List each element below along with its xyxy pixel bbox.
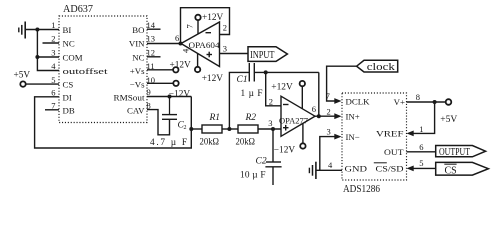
node junction at pin 3 COM [35,55,39,59]
svg-text:OUTPUT: OUTPUT [439,147,470,158]
ADS1286 right pin names [376,97,406,173]
wire C1 to OPA277 feedback node [254,71,318,73]
svg-text:IN−: IN− [346,132,360,142]
svg-text:ADS1286: ADS1286 [343,184,380,195]
op-amp U3 plus input marker [283,125,289,131]
svg-text:+12V: +12V [271,82,293,92]
svg-text:2: 2 [184,125,187,131]
IC U4 ADS1286 dotted body [342,93,407,180]
svg-text:BO: BO [132,25,144,35]
svg-text:1: 1 [51,20,55,30]
wire pin 7 DB stub [45,109,59,111]
arrow into IN- [334,134,341,140]
OUTPUT signal flag [436,146,486,157]
svg-text:R2: R2 [245,113,257,123]
svg-text:10 µ F: 10 µ F [240,171,266,181]
svg-text:−12V: −12V [169,90,191,100]
svg-text:AD637: AD637 [63,4,93,15]
svg-text:C1: C1 [237,75,248,85]
svg-text:INPUT: INPUT [250,50,275,61]
power +12V terminal at OPA604 pin 7 [197,20,199,34]
op-amp U2 minus input marker [206,32,212,34]
svg-text:DCLK: DCLK [346,97,371,107]
svg-text:4: 4 [328,160,333,170]
svg-text:7: 7 [185,24,195,28]
svg-text:+12V: +12V [202,13,224,23]
svg-text:R1: R1 [209,113,221,123]
ADS1286 left pin names [345,97,371,174]
wire OUT pin 6 to OUTPUT flag [407,151,436,153]
svg-text:14: 14 [147,20,156,30]
svg-text:RMSout: RMSout [114,92,146,102]
svg-text:3: 3 [51,48,55,58]
wire clock flag to DCLK pin 7 [327,66,357,101]
power +12V terminal at OPA604 pin 4 [197,53,199,66]
resistor R2 (20k) [238,125,258,133]
wire R2 to OPA277 non-inverting input [258,128,281,130]
svg-text:VREF: VREF [376,129,404,139]
svg-text:6: 6 [419,142,423,152]
svg-text:outoffset: outoffset [63,66,109,76]
node C1 / pin2 junction [264,70,268,74]
power +5V terminal at ADS1286 pin 8 V+ [407,101,446,103]
wire feedback leg down to output [318,72,320,116]
svg-text:8: 8 [147,100,151,110]
CS signal flag [436,162,489,175]
wire OPA604 pin 3 to INPUT flag [220,53,249,55]
svg-text:VIN: VIN [129,39,145,49]
op-amp U2 plus input marker [207,52,213,58]
capacitor C2 (10uF) at OPA277 input [272,129,274,162]
svg-text:+Vs: +Vs [130,66,145,76]
node OPA604 output at AD637 VIN [179,42,183,46]
svg-text:NC: NC [63,39,75,49]
svg-text:clock: clock [367,62,396,73]
svg-text:3: 3 [327,127,331,137]
wire ground to GND pin 4 [316,169,342,171]
svg-text:2: 2 [223,23,227,33]
svg-text:+5V: +5V [440,115,457,125]
svg-text:OUT: OUT [384,147,404,157]
capacitor C2 (4.7uF) [162,97,177,120]
wire IN- pin 3 to ground rail [320,137,335,171]
svg-text:C2: C2 [256,157,267,167]
svg-text:−Vs: −Vs [130,80,145,90]
wire ground bus down to pins 3 and 4 [37,30,59,71]
wire pin 9 RMSout to R1 node [147,96,191,98]
arrow into DCLK [334,98,341,104]
svg-text:NC: NC [132,53,144,63]
ground (at ADS1286 GND pin 4) [309,162,316,179]
overline on CS flag text [444,163,456,165]
power -12V terminal at OPA277 pin 4 [302,123,304,143]
wire OPA604 feedback loop output to pin 2 [181,8,230,44]
svg-text:1 µ F: 1 µ F [241,89,263,99]
wire +5V terminal to pin 5 CS [26,83,59,85]
power +5V terminal at AD637 pin 5 CS [20,81,25,86]
arrow into VREF [407,131,414,137]
svg-text:5: 5 [51,75,55,85]
power +12V terminal at OPA277 pin 7 [301,86,303,108]
svg-text:+12V: +12V [170,60,192,70]
wire RMSout node to R1 [191,128,202,130]
wire AD637 pin 13 VIN to OPA604 output [147,43,181,45]
svg-text:+12V: +12V [202,74,224,84]
node R1-R2 / C1 junction [227,127,231,131]
svg-text:−12V: −12V [274,145,296,155]
INPUT signal flag [248,47,287,62]
resistor R1 (20k) [202,125,222,133]
op-amp U2 OPA604 triangle [181,22,220,67]
op-amp U3 OPA277 triangle [281,96,315,136]
svg-text:5: 5 [419,158,423,168]
svg-text:20kΩ: 20kΩ [236,138,256,148]
wire pin 8 CAV loop to capacitor C2 [147,110,170,135]
wire pin 2 NC stub [43,42,60,44]
svg-text:CS: CS [445,164,457,176]
AD637 left pin numbers 1-7 [51,20,56,111]
wire down to OPA277 inverting input pin 2 [266,72,281,105]
svg-text:13: 13 [147,34,156,44]
svg-text:6: 6 [175,33,179,43]
svg-text:8: 8 [416,92,420,102]
svg-text:20kΩ: 20kΩ [200,138,220,148]
node V+ / VREF junction [433,100,437,104]
wire junction to pin 3 COM [37,56,59,58]
svg-text:7: 7 [51,101,55,111]
arrow into CS/SD [407,166,414,172]
svg-text:3: 3 [223,44,227,54]
svg-text:CAV: CAV [127,105,145,115]
svg-text:4.7 µ F: 4.7 µ F [150,138,187,148]
svg-text:3: 3 [268,118,272,128]
wire ground to AD637 pin 1 BI [25,29,59,31]
svg-text:CS: CS [63,80,74,90]
svg-text:2: 2 [51,34,55,44]
svg-text:6: 6 [312,104,316,114]
clock signal flag [357,60,398,72]
ADS1286 pin numbers [326,91,424,170]
svg-text:IN+: IN+ [346,112,360,122]
wire OPA277 output to ADS1286 IN+ [315,115,335,117]
node ground junction at pin 1 [35,28,39,32]
AD637 right pin numbers 14-8 [147,20,156,110]
wire R1 to R2 [222,128,238,130]
wire pin 6 DI loop down to bottom rail [35,97,192,149]
op-amp U3 minus input marker [283,104,289,106]
svg-text:2: 2 [327,107,331,117]
ground (top-left chassis ground) [19,22,25,39]
node C2 tap on RMSout wire [168,95,172,99]
svg-text:DI: DI [63,93,72,103]
wire V+ node to VREF pin 1 [414,102,435,133]
svg-text:COM: COM [63,53,83,63]
AD637 left pin names [63,25,109,116]
svg-text:GND: GND [345,163,368,173]
wire pin 14 BO stub [147,28,161,30]
capacitor C1 (1uF) [229,72,249,129]
power -12V terminal at pin 10 -Vs [147,82,173,84]
svg-text:9: 9 [147,87,151,97]
svg-text:V+: V+ [394,97,405,107]
node bottom rail / R1 junction [189,127,193,131]
power +12V terminal at pin 11 +Vs [147,69,173,71]
svg-text:4: 4 [51,61,56,71]
overline on CS/SD label [374,162,387,164]
svg-text:6: 6 [51,88,55,98]
wire pin 12 NC stub [147,56,161,58]
svg-text:DB: DB [63,106,75,116]
arrow into IN+ [334,113,341,119]
svg-text:CS/SD: CS/SD [376,164,404,174]
wire CS/SD pin 5 to CS flag [414,167,436,169]
svg-text:OPA604: OPA604 [189,40,221,50]
AD637 right pin names [114,25,146,116]
svg-text:2: 2 [269,96,273,106]
svg-text:OPA277: OPA277 [279,115,309,125]
svg-text:BI: BI [63,25,72,35]
svg-text:+5V: +5V [14,71,31,81]
IC U1 AD637 dotted body [59,16,147,123]
node R2 / C2 junction [271,127,275,131]
node feedback / output junction [317,114,321,118]
